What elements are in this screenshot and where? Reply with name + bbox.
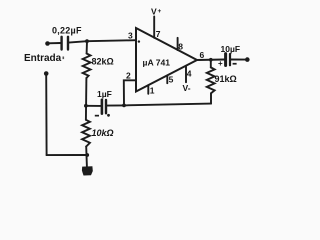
pin 7 V+ lead: [153, 17, 155, 38]
capacitor C3 10uF plates: [224, 54, 227, 66]
wire C3 to output terminal: [231, 59, 245, 61]
svg-text:6: 6: [200, 50, 205, 60]
svg-text:7: 7: [156, 29, 161, 39]
capacitor C 0,22uF plates: [60, 37, 62, 50]
svg-text:3: 3: [128, 30, 133, 40]
output wire pin 6: [197, 59, 224, 62]
input lower terminal dot: [44, 71, 49, 76]
svg-text:0,22µF: 0,22µF: [52, 26, 82, 36]
node B junction dot: [84, 104, 88, 108]
svg-text:1µF: 1µF: [97, 89, 112, 99]
svg-text:10kΩ: 10kΩ: [92, 128, 114, 138]
svg-text:4: 4: [187, 68, 192, 78]
wire node A to pin 3: [87, 40, 136, 41]
wire C1 to node A: [69, 41, 88, 42]
wire input terminal to C1: [48, 42, 61, 44]
svg-text:+: +: [218, 59, 223, 68]
svg-text:+: +: [158, 8, 162, 15]
C2 plus dot: [107, 114, 110, 117]
svg-text:Entrada: Entrada: [24, 53, 62, 64]
svg-text:2: 2: [126, 71, 131, 81]
svg-text:91kΩ: 91kΩ: [215, 74, 237, 84]
op-amp U1 triangle: [136, 28, 197, 92]
ground symbol blob: [82, 166, 93, 175]
svg-text:8: 8: [178, 42, 183, 52]
pin 1 lead: [147, 85, 149, 94]
resistor R2 10k zigzag: [82, 120, 90, 147]
noninverting input marker dot: [138, 40, 140, 42]
wire bottom left to ground: [47, 154, 88, 156]
pin 4 V- lead: [185, 66, 187, 82]
svg-text:1: 1: [150, 85, 155, 95]
wire output node to R3: [210, 60, 212, 68]
svg-text:82kΩ: 82kΩ: [92, 57, 114, 67]
wire node A down to R1: [86, 41, 88, 53]
wire node C to pin 2: [124, 80, 136, 105]
pin 5 lead: [166, 75, 168, 83]
svg-text:V-: V-: [183, 83, 191, 93]
wire node B to C2: [86, 105, 100, 107]
node A junction dot: [85, 39, 89, 43]
output junction dot: [209, 58, 213, 62]
capacitor C2 1uF plates: [101, 100, 104, 114]
input terminal dot (Entrada top): [45, 41, 50, 46]
C3 minus sign: [233, 63, 237, 65]
svg-text:5: 5: [169, 75, 174, 85]
output terminal dot: [245, 57, 250, 62]
svg-text:µA 741: µA 741: [143, 57, 171, 67]
pin 8 lead: [177, 38, 179, 50]
wire lower terminal down: [45, 74, 47, 156]
svg-text:V: V: [151, 6, 157, 16]
wire R1 to node B: [85, 78, 88, 120]
wire R2 to ground node: [85, 147, 88, 167]
feedback rail wire: [124, 104, 211, 106]
resistor R1 82k zigzag: [83, 54, 91, 79]
svg-text:10µF: 10µF: [221, 44, 241, 54]
C2 minus sign: [95, 115, 99, 117]
ground junction dot: [85, 153, 89, 157]
speck after Entrada: [63, 57, 65, 60]
wire C2 to node C: [107, 104, 124, 106]
wire rail up to R3: [210, 93, 212, 103]
node C junction dot: [122, 104, 126, 108]
resistor R3 91k zigzag: [207, 67, 215, 93]
